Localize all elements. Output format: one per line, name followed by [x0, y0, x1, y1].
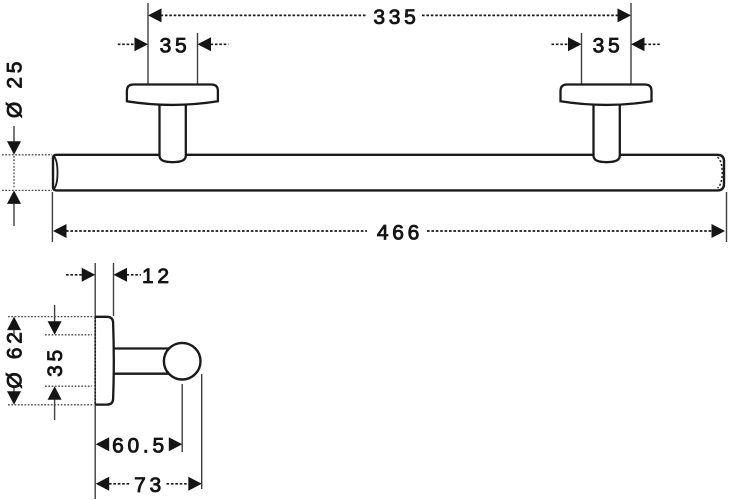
extension line ball right tangent (x=201.7)	[201, 374, 203, 489]
right stem (post shaft)	[594, 98, 620, 162]
extension line bar right bottom (x=726.5)	[726, 192, 728, 242]
extension line right post right (x=631)	[630, 3, 632, 85]
dimension 466 line	[53, 224, 725, 238]
svg-text:60.5: 60.5	[112, 435, 168, 458]
dimension 12	[66, 268, 141, 282]
extension line 35 bottom (y=386.2)	[45, 385, 92, 387]
wall extension line (x=95.2)	[94, 263, 96, 499]
dimension 73	[96, 477, 202, 491]
extension line bar bottom left (y=190.4)	[2, 189, 52, 191]
right escutcheon (wall rose)	[561, 85, 652, 105]
dimension 335 line	[148, 8, 631, 22]
dimension diameter 62	[7, 317, 21, 405]
flange back edge at wall (dashed)	[94, 317, 96, 405]
arm (hook stem side view)	[114, 349, 172, 374]
extension line ball center (x=182.2)	[181, 384, 183, 452]
extension line bar top left (y=154.8)	[2, 154, 52, 156]
left stem (post shaft)	[160, 98, 186, 162]
svg-text:73: 73	[134, 474, 165, 497]
svg-text:35: 35	[44, 346, 67, 377]
dimension 35 left post	[118, 37, 229, 51]
svg-text:35: 35	[160, 35, 191, 58]
dimension 35 right post	[552, 37, 662, 51]
svg-text:Ø 25: Ø 25	[4, 58, 27, 118]
left escutcheon (wall rose)	[127, 85, 218, 105]
extension line left post right (x=197.5)	[197, 33, 199, 84]
extension line flange top (y=316.6)	[8, 316, 94, 318]
dimension diameter 25	[7, 126, 21, 226]
svg-text:335: 335	[373, 6, 419, 29]
svg-text:466: 466	[377, 221, 423, 244]
extension line flange bottom (y=404.8)	[8, 404, 94, 406]
bar left end cap arc	[54, 157, 57, 189]
dimension 60.5	[96, 437, 183, 451]
dimension 35 side view	[48, 305, 62, 420]
flange profile (side view)	[95, 317, 114, 405]
extension line bar left bottom (x=52.4)	[51, 192, 53, 242]
flange front extension line (x=113.5)	[113, 263, 115, 316]
svg-text:12: 12	[142, 265, 173, 288]
extension line 35 top (y=334.8)	[45, 334, 92, 336]
ball end (side view)	[164, 343, 201, 380]
extension line right post left (x=581.5)	[581, 33, 583, 85]
bar right end cap arc (dashed)	[718, 157, 723, 188]
towel bar body	[53, 155, 724, 191]
svg-text:35: 35	[593, 35, 624, 58]
svg-text:Ø 62: Ø 62	[4, 328, 27, 388]
extension line left post left (x=148)	[147, 3, 149, 84]
